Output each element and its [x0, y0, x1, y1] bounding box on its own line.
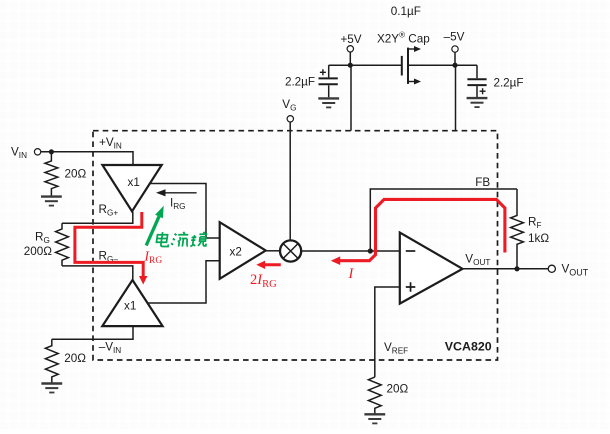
wire supply rail right [408, 64, 477, 66]
wire feedback FB [370, 189, 517, 251]
svg-text:–VIN: –VIN [99, 340, 122, 355]
svg-text:IRG: IRG [144, 248, 163, 266]
wire x1 bottom output to x2 [149, 261, 220, 303]
svg-text:X2Y® Cap: X2Y® Cap [377, 31, 430, 46]
svg-text:FB: FB [475, 176, 490, 189]
wire VG to multiplier [289, 122, 291, 241]
svg-text:20Ω: 20Ω [64, 352, 86, 365]
resistor 20 ohm (VIN) [45, 152, 58, 196]
svg-text:VCA820: VCA820 [445, 340, 492, 354]
junction -5V [452, 63, 457, 68]
svg-text:20Ω: 20Ω [65, 167, 87, 180]
junction +5V [348, 63, 353, 68]
arrow IRG (black, current direction) [163, 192, 197, 194]
ground (VREF resistor) [364, 414, 385, 423]
terminal VOUT [548, 265, 555, 272]
svg-text:VOUT: VOUT [465, 253, 490, 268]
ground C1 [318, 98, 339, 107]
svg-text:+VIN: +VIN [99, 136, 122, 151]
wire output [463, 268, 549, 270]
svg-text:VOUT: VOUT [562, 263, 589, 278]
op-amp U1 output stage [400, 233, 463, 304]
wire RG- [62, 266, 133, 280]
svg-text:RG: RG [35, 231, 50, 246]
ground (-VIN resistor) [41, 384, 62, 393]
svg-text:VG: VG [282, 98, 296, 113]
svg-text:1kΩ: 1kΩ [528, 232, 549, 245]
wire -5V pin into box [455, 65, 457, 131]
svg-text:20Ω: 20Ω [387, 383, 409, 396]
label current mirror (CJK) [156, 232, 208, 247]
wire x2 to multiplier [266, 250, 280, 252]
junction VIN [49, 149, 54, 154]
resistor 20 ohm (-VIN) [45, 339, 58, 383]
wire VIN to buffer [41, 152, 133, 165]
capacitor X2Y C3 [402, 48, 408, 84]
svg-text:VREF: VREF [384, 341, 408, 356]
red feedback current path [339, 199, 505, 260]
wire supply rail left [329, 64, 402, 66]
multiplier [280, 240, 301, 261]
svg-text:x1: x1 [124, 300, 136, 313]
svg-text:–5V: –5V [444, 31, 465, 44]
svg-text:VIN: VIN [11, 146, 27, 161]
svg-text:RG+: RG+ [99, 203, 119, 218]
op-amp buffer x1 top [102, 165, 161, 211]
red arrow 2IRG [263, 263, 281, 266]
amplifier x2 [220, 222, 266, 279]
resistor RF 1k ohm [511, 189, 524, 269]
junction output RF [514, 266, 519, 271]
ground C2 [467, 98, 488, 107]
svg-text:I: I [348, 266, 355, 282]
resistor 20 ohm (VREF) [368, 377, 381, 414]
svg-text:IRG: IRG [170, 197, 186, 212]
op-amp buffer x1 bottom [102, 280, 162, 326]
wire -VIN pin [52, 326, 133, 339]
svg-text:2.2µF: 2.2µF [285, 76, 315, 89]
IC boundary VCA820 dashed box [93, 131, 498, 360]
wire non-inverting input / VREF [375, 287, 400, 377]
wire +5V pin into box [350, 65, 352, 131]
green arrow current mirror [146, 216, 159, 245]
svg-text:0.1µF: 0.1µF [391, 5, 421, 18]
svg-text:x1: x1 [128, 176, 140, 189]
svg-text:x2: x2 [230, 246, 242, 259]
wire multiplier to op-amp inverting input [301, 250, 400, 252]
ground (VIN resistor) [41, 197, 62, 206]
svg-text:2IRG: 2IRG [250, 272, 277, 290]
svg-text:+5V: +5V [340, 33, 361, 46]
wire -5V stub [454, 52, 456, 65]
junction summing node [368, 248, 373, 253]
svg-text:200Ω: 200Ω [24, 245, 53, 258]
svg-text:RF: RF [528, 216, 541, 231]
wire RG+ [62, 212, 133, 224]
resistor RG 200 ohm [56, 223, 69, 266]
svg-text:2.2µF: 2.2µF [493, 77, 523, 90]
wire x1 top output to x2 [150, 184, 220, 239]
wire +5V stub [349, 52, 351, 65]
red current path through RG [75, 212, 143, 279]
